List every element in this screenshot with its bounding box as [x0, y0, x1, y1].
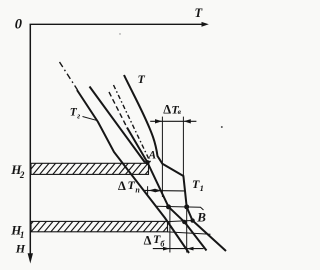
svg-text:H: H	[15, 241, 26, 255]
svg-text:2: 2	[19, 170, 25, 180]
svg-text:Δ: Δ	[144, 233, 152, 247]
svg-text:1: 1	[20, 230, 25, 240]
svg-text:T: T	[138, 72, 146, 86]
svg-text:Δ: Δ	[118, 179, 126, 193]
svg-text:T: T	[128, 178, 136, 192]
svg-text:B: B	[196, 209, 206, 224]
svg-text:A: A	[148, 150, 157, 162]
svg-text:0: 0	[15, 16, 22, 32]
svg-text:п: п	[135, 186, 140, 195]
svg-text:Δ: Δ	[163, 102, 171, 116]
svg-text:г: г	[77, 112, 80, 121]
svg-text:1: 1	[200, 183, 204, 193]
